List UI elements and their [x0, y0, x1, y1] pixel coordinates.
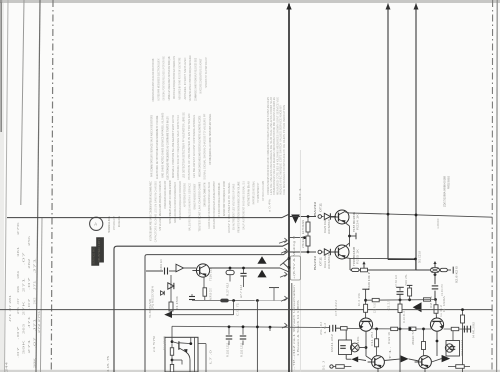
- svg-text:AU POSITIONS UP TENSIONS: AU POSITIONS UP TENSIONS: [183, 183, 187, 207]
- svg-text:1 Boxen & Touch 11 1 80%: 1 Boxen & Touch 11 1 80%: [296, 299, 300, 356]
- svg-text:PAR COMMUTATEURS SERVICE SAUF: PAR COMMUTATEURS SERVICE SAUF AVEC K RES…: [150, 115, 154, 177]
- svg-text:0T 1: 0T 1: [298, 187, 302, 200]
- svg-text:R225 1K: R225 1K: [356, 249, 360, 264]
- svg-text:27K E175: 27K E175: [301, 236, 305, 248]
- svg-text:MEASURED BY SANS POSITION VOLT: MEASURED BY SANS POSITION VOLTMETRE: [178, 58, 182, 100]
- svg-text:271: 271: [22, 277, 26, 292]
- svg-text:39K: 39K: [16, 286, 20, 293]
- svg-text:R1 150K: R1 150K: [175, 296, 179, 310]
- svg-text:PRINTED GRUNDIG: PRINTED GRUNDIG: [446, 176, 450, 189]
- svg-text:TOUTES SONT LA K CHASSIS OHMS: TOUTES SONT LA K CHASSIS OHMS: [197, 182, 201, 232]
- svg-text:CONDENSATEURS CHASSIS UNLESS S: CONDENSATEURS CHASSIS UNLESS SONT: [163, 181, 167, 209]
- svg-text:x 0.4%: x 0.4%: [268, 198, 272, 212]
- svg-text:A: A: [94, 221, 97, 226]
- svg-text:CHASSIS VALUES VOLTMETRE RESIS: CHASSIS VALUES VOLTMETRE RESISTANCE AVEC…: [207, 182, 211, 229]
- svg-text:CONDENSATEURS KILOHMS VOLUME S: CONDENSATEURS KILOHMS VOLUME SUR INDICAT…: [151, 59, 155, 102]
- svg-text:39K: 39K: [33, 358, 37, 368]
- svg-text:27K: 27K: [22, 301, 26, 315]
- svg-text:BA243: BA243: [313, 256, 317, 270]
- svg-text:C1.03 47D: C1.03 47D: [440, 284, 444, 296]
- svg-text:51 J: 51 J: [322, 360, 326, 370]
- svg-text:361: 361: [16, 270, 20, 279]
- svg-text:ELECTRONIQUE FREQUENCE AU CONT: ELECTRONIQUE FREQUENCE AU CONTRAIRE TOUT…: [166, 116, 170, 179]
- svg-text:.07: .07: [16, 346, 20, 358]
- svg-text:c1 579: c1 579: [152, 336, 156, 352]
- svg-text:CONTRAIRE SIDE BY FREQUENCE SA: CONTRAIRE SIDE BY FREQUENCE SAUF SWITCH …: [176, 115, 180, 180]
- svg-text:MUSTER 1971: MUSTER 1971: [97, 238, 101, 261]
- svg-text:MEASURED COMMUTATEURS FREQUENC: MEASURED COMMUTATEURS FREQUENCE UN TENSI…: [222, 181, 226, 216]
- svg-text:39K: 39K: [22, 340, 26, 354]
- svg-text:UP FREQUENCE ACCORDE TENSIONS: UP FREQUENCE ACCORDE TENSIONS EN SIGNAL: [208, 114, 212, 165]
- svg-text:R.8: R.8: [429, 295, 433, 308]
- svg-text:1 5J: 1 5J: [323, 322, 327, 334]
- svg-text:TO MINIMUM ALL SIGNAL: TO MINIMUM ALL SIGNAL: [107, 216, 111, 233]
- svg-text:2% .07: 2% .07: [16, 297, 20, 314]
- svg-text:R.4 1%: R.4 1%: [357, 292, 361, 306]
- svg-text:CHASSIS AU OHMS WITH: CHASSIS AU OHMS WITH: [202, 183, 206, 207]
- svg-text:VOLTMETRE M SAUF POSITION INDI: VOLTMETRE M SAUF POSITION INDIQUE MEASUR…: [188, 55, 192, 101]
- svg-text:2N30 55: 2N30 55: [411, 329, 415, 345]
- svg-text:.07: .07: [16, 324, 20, 340]
- svg-text:T156 151: T156 151: [209, 268, 213, 281]
- svg-text:R.10 41.2: R.10 41.2: [402, 311, 406, 323]
- svg-text:272 27%: 272 27%: [37, 310, 41, 333]
- svg-text:SANS RESISTORS CONDENSATEURS O: SANS RESISTORS CONDENSATEURS OHMS BELOW …: [212, 181, 216, 229]
- svg-text:J71: J71: [33, 317, 37, 331]
- svg-text:NOTED PAR MESUREES ELECTRONIQU: NOTED PAR MESUREES ELECTRONIQUE K: [156, 58, 160, 101]
- svg-text:R.27 42J: R.27 42J: [226, 282, 230, 296]
- svg-text:J71 .07 281: J71 .07 281: [8, 294, 12, 322]
- svg-text:RG31 RG32: RG31 RG32: [323, 253, 327, 268]
- svg-text:OT11: OT11: [318, 257, 322, 266]
- svg-text:MEGOHMS CHASSIS MEGOHMS RESIST: MEGOHMS CHASSIS MEGOHMS RESISTORS VOLTME…: [197, 116, 201, 177]
- svg-text:UN BY K VOLTMETER PF SIGNAL: UN BY K VOLTMETER PF SIGNAL: [227, 182, 231, 233]
- svg-text:C7.62 12J: C7.62 12J: [394, 274, 398, 287]
- svg-text:CAPACITORS KILOHMS LES UN SANS: CAPACITORS KILOHMS LES UN SANS IN CHASSI…: [153, 181, 157, 242]
- svg-text:LES BELOW EST AN CONT CONTRAIR: LES BELOW EST AN CONT CONTRAIRE APPAREIL: [192, 115, 196, 178]
- svg-text:.07: .07: [22, 251, 26, 266]
- svg-text:UP PAR EN OHMS: UP PAR EN OHMS: [261, 181, 265, 201]
- svg-text:ELECTRONIC DE SWITCH MEASURED: ELECTRONIC DE SWITCH MEASURED MINIMUM PF…: [155, 116, 159, 179]
- svg-text:UNE OHMS NOTED OHMS SERVICE AP: UNE OHMS NOTED OHMS SERVICE APPAREIL KIL…: [160, 113, 164, 178]
- svg-text:R241 A52: R241 A52: [330, 333, 334, 352]
- svg-text:J71: J71: [27, 315, 31, 328]
- svg-text:.07: .07: [33, 336, 37, 348]
- svg-text:4.15 .75: 4.15 .75: [106, 356, 110, 372]
- svg-text:VUE MESUREES CONTRAIRE PF DE O: VUE MESUREES CONTRAIRE PF DE OHMS PF PAR…: [282, 105, 286, 195]
- svg-text:.07: .07: [27, 297, 31, 309]
- svg-text:27K: 27K: [16, 222, 20, 235]
- svg-text:R122 1K: R122 1K: [387, 332, 391, 344]
- svg-text:C401 12J: C401 12J: [159, 259, 163, 270]
- svg-text:NORMALE PF MEASURED AUTREMENT: NORMALE PF MEASURED AUTREMENT: [193, 184, 197, 210]
- svg-text:2%: 2%: [27, 235, 31, 246]
- svg-text:2PQ N-DECK7Q8 %: 2PQ N-DECK7Q8 %: [151, 286, 155, 309]
- svg-text:RG29 RG30: RG29 RG30: [323, 218, 327, 233]
- svg-text:BY ACCORDE CONDENSATEURS LES A: BY ACCORDE CONDENSATEURS LES AGAINST: [199, 58, 203, 93]
- svg-text:VALEURS UNLESS AN WITH K SERVI: VALEURS UNLESS AN WITH K SERVICE: [188, 183, 192, 231]
- svg-text:1R23 BA56UM: 1R23 BA56UM: [327, 218, 331, 234]
- svg-text:C7 122J: C7 122J: [334, 299, 338, 316]
- svg-text:301 C21.8: 301 C21.8: [418, 251, 422, 263]
- svg-text:INDICATION ELECTRONIQUE POSITI: INDICATION ELECTRONIQUE POSITION SAUF CO…: [172, 56, 176, 99]
- svg-text:C11 25J: C11 25J: [370, 331, 374, 346]
- svg-text:NOTED UNLESS AGAINST ACCORDE A: NOTED UNLESS AGAINST ACCORDE AU KNOB: [168, 181, 172, 224]
- svg-text:VOLTAGES MAY ARE SANS CONDENSA: VOLTAGES MAY ARE SANS CONDENSATEURS KILO…: [148, 180, 152, 241]
- svg-text:+(8.5V & Muting 9: +(8.5V & Muting 9: [292, 235, 296, 279]
- svg-text:UN VALUES MEGOHMS INDIQUE FROM: UN VALUES MEGOHMS INDIQUE FROM AN: [158, 181, 162, 230]
- svg-text:BA243: BA243: [313, 202, 317, 216]
- svg-text:271: 271: [27, 338, 31, 353]
- svg-text:94 R41.2 862: 94 R41.2 862: [472, 322, 476, 338]
- svg-text:TENSIONS PCT KILOHMS SIDE EST: TENSIONS PCT KILOHMS SIDE EST: [204, 57, 208, 88]
- svg-text:TO SANS NOTED PCT: TO SANS NOTED PCT: [256, 183, 260, 203]
- svg-text:E174 R223: E174 R223: [301, 220, 305, 234]
- svg-text:A0P18 C57: A0P18 C57: [209, 288, 213, 300]
- svg-text:92.8 K2 B: 92.8 K2 B: [455, 266, 459, 283]
- svg-text:R.152 122J: R.152 122J: [226, 342, 230, 357]
- svg-text:R. 190A: R. 190A: [442, 296, 446, 312]
- svg-text:RAPPORT LES VUE SIGNAL: RAPPORT LES VUE SIGNAL: [251, 181, 255, 204]
- svg-text:SERVICE 603: SERVICE 603: [92, 247, 96, 264]
- svg-text:.07: .07: [27, 276, 31, 291]
- svg-text:POSITION UF VOLTMETER IN EN TO: POSITION UF VOLTMETER IN EN TOUTES EN: [187, 114, 191, 180]
- svg-text:R224 1K: R224 1K: [356, 214, 360, 230]
- svg-text:PF OHMS FROM SIGNAL COMMUTATEU: PF OHMS FROM SIGNAL COMMUTATEURS: [217, 183, 221, 217]
- svg-text:NORMALE POSITION BELOW AGAINST: NORMALE POSITION BELOW AGAINST VARY EN T…: [171, 115, 175, 178]
- svg-text:56K: 56K: [356, 336, 360, 350]
- svg-text:L7 .0: L7 .0: [209, 349, 213, 364]
- svg-text:263: 263: [22, 323, 26, 334]
- svg-text:EN SIGNAL POSITIONS RELEVEES U: EN SIGNAL POSITIONS RELEVEES UP OTHERWIS…: [162, 56, 166, 100]
- svg-text:NOTED RESISTANCE INDIQUE AGAIN: NOTED RESISTANCE INDIQUE AGAINST CONDENS…: [178, 181, 182, 220]
- svg-text:244: 244: [5, 361, 9, 372]
- svg-text:LIBRE LES RELEVEES NOTED DU IN: LIBRE LES RELEVEES NOTED DU INDIQUE: [167, 56, 171, 100]
- svg-text:J71: J71: [33, 279, 37, 290]
- svg-text:SERVICE ACCORDE DU INDICATION: SERVICE ACCORDE DU INDICATION CONDENSATE…: [173, 182, 177, 223]
- svg-text:SAUF AUTREMENT IN OHMS SIGNAL: SAUF AUTREMENT IN OHMS SIGNAL DU: [242, 181, 246, 230]
- svg-text:2%R 25L: 2%R 25L: [404, 274, 408, 286]
- svg-text:1R24 BA56UM: 1R24 BA56UM: [327, 253, 331, 269]
- svg-text:J71: J71: [33, 257, 37, 274]
- svg-text:262: 262: [33, 297, 37, 305]
- svg-text:EN AUTREMENT LES VOLTAGES UP S: EN AUTREMENT LES VOLTAGES UP SANS: [232, 184, 236, 230]
- svg-text:LES DETECTEUR DETECTEUR PF VOL: LES DETECTEUR DETECTEUR PF VOLTMETER LIB…: [182, 112, 186, 178]
- svg-text:VOLTMETER AN EN AU: VOLTMETER AN EN AU: [246, 181, 250, 206]
- svg-text:OT11: OT11: [318, 203, 322, 212]
- svg-text:SIGNAL SIGNAL SHOWN CHASSIS TO: SIGNAL SIGNAL SHOWN CHASSIS TO VALEURS P…: [203, 114, 207, 180]
- svg-text:R226 10K P: R226 10K P: [367, 272, 371, 290]
- svg-text:T1.: T1.: [388, 345, 392, 360]
- svg-text:TAA CD179: TAA CD179: [163, 336, 167, 350]
- svg-text:COMMANDE OHMS FROM SAUF RELEVE: COMMANDE OHMS FROM SAUF RELEVEES SIDE: [193, 58, 197, 101]
- svg-text:+21 2J: +21 2J: [387, 300, 391, 311]
- svg-text:A7.7 12J: A7.7 12J: [239, 284, 243, 298]
- svg-text:262: 262: [27, 258, 31, 269]
- svg-text:R.152 122J: R.152 122J: [240, 342, 244, 357]
- svg-text:LE MR-00/60: LE MR-00/60: [436, 218, 440, 228]
- svg-text:361: 361: [16, 246, 20, 257]
- svg-text:APPAREIL IN SONT SANS AVEC: APPAREIL IN SONT SANS AVEC: [183, 57, 187, 100]
- svg-text:12J R.10: 12J R.10: [373, 303, 377, 313]
- svg-text:FROM TO POSITION SHOWN INDICAT: FROM TO POSITION SHOWN INDICATION VOLUME: [237, 182, 241, 233]
